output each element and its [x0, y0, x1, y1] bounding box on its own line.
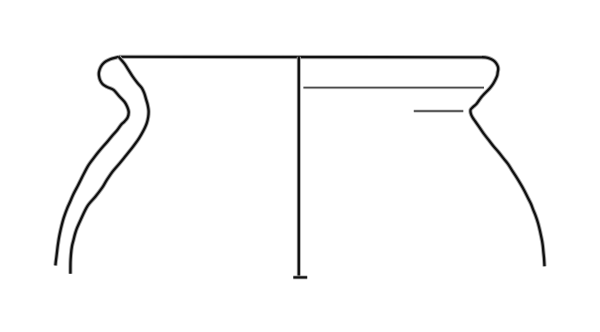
center axis line [297, 57, 301, 277]
rim top line [119, 55, 486, 60]
vessel section inner profile (left) [70, 57, 148, 274]
interior detail line 1 [303, 86, 484, 89]
interior detail line 2 [414, 109, 464, 112]
vessel section outer profile (left) [55, 57, 128, 266]
vessel exterior profile (right): rim lip, neck, body [470, 57, 544, 266]
axis base tick [293, 275, 307, 279]
